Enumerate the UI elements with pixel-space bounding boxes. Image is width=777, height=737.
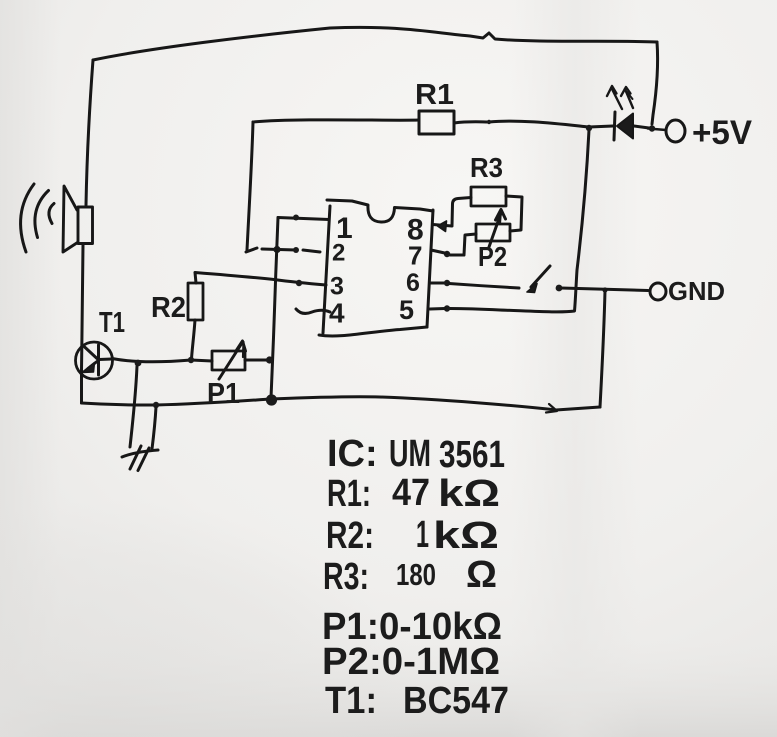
svg-text:3561: 3561 — [439, 434, 505, 476]
svg-text:+5V: +5V — [692, 114, 752, 152]
svg-text:R2:: R2: — [326, 515, 374, 557]
wire pin5 stub — [430, 307, 445, 311]
wire pin2 dashed — [246, 248, 320, 252]
wire P2 left lead — [450, 234, 476, 255]
node at +5V — [649, 125, 655, 131]
svg-text:4: 4 — [329, 298, 345, 329]
svg-text:R3:: R3: — [323, 556, 369, 598]
svg-text:P2: P2 — [478, 241, 507, 272]
svg-text:180: 180 — [396, 557, 436, 592]
ground/transducer symbol — [122, 366, 158, 471]
svg-text:2: 2 — [332, 240, 345, 267]
node pin1 — [293, 215, 299, 221]
svg-text:kΩ: kΩ — [433, 515, 499, 557]
svg-text:47: 47 — [392, 472, 430, 514]
tick on bottom bus — [546, 404, 557, 413]
wire pin7 stub — [431, 250, 447, 254]
node on GND row — [602, 287, 607, 292]
svg-text:R1: R1 — [415, 79, 454, 111]
wire R1 left lead — [253, 120, 419, 122]
node base/gnd-sym junction — [135, 360, 142, 367]
node pin3 — [296, 280, 302, 286]
potentiometer P2 — [476, 210, 510, 248]
wire to GND terminal — [561, 288, 648, 291]
potentiometer P1 — [212, 341, 246, 379]
wire P1 right lead — [245, 359, 269, 362]
wire right drop to +5V — [652, 42, 658, 124]
transistor T1 — [76, 342, 113, 379]
resistor R1 — [419, 111, 454, 134]
svg-text:kΩ: kΩ — [438, 473, 500, 515]
wire bus vertical — [271, 218, 278, 399]
wire LED drop + pin5 row — [449, 130, 589, 312]
node LED top — [586, 125, 592, 131]
svg-text:T1: T1 — [99, 307, 125, 339]
svg-text:3: 3 — [330, 273, 344, 301]
wire top arc — [93, 27, 657, 60]
wire bottom bus — [82, 397, 601, 410]
node P1 bus junction — [266, 356, 273, 363]
node switch right — [556, 285, 563, 292]
svg-text:5: 5 — [399, 295, 414, 325]
wire left vertical lower (speaker to bottom-left corner) — [82, 245, 84, 403]
wire R2 top to pin3 — [195, 273, 326, 286]
svg-text:6: 6 — [406, 269, 420, 297]
wire R1 right lead — [454, 121, 613, 127]
wire R2 bottom lead — [192, 320, 196, 359]
pin4 stub squiggle — [296, 309, 330, 313]
wire left vertical upper (top corner to speaker) — [86, 60, 93, 205]
svg-text:Ω: Ω — [466, 554, 497, 596]
node pin5 — [444, 305, 450, 311]
node pin2 bus junction — [273, 246, 280, 253]
node main bottom junction — [266, 394, 277, 405]
speaker LS1 — [63, 186, 93, 252]
svg-text:R3: R3 — [470, 152, 503, 183]
node pin2 — [293, 247, 299, 253]
svg-text:T1:: T1: — [325, 680, 377, 722]
sound waves — [21, 184, 54, 252]
svg-text:R1:: R1: — [327, 473, 371, 515]
node on R1 right lead — [487, 120, 491, 124]
wire to +5V terminal — [648, 129, 666, 131]
terminal GND — [650, 283, 666, 300]
svg-text:1: 1 — [416, 514, 429, 556]
svg-text:P2:0-1MΩ: P2:0-1MΩ — [322, 641, 500, 683]
node R2 bottom junction — [188, 357, 194, 363]
wire R3 right lead — [506, 196, 522, 231]
terminal +5V — [666, 120, 685, 142]
resistor R2 — [188, 283, 203, 320]
resistor R3 — [471, 187, 506, 206]
wire T1 base row — [112, 359, 212, 362]
svg-text:7: 7 — [408, 241, 422, 271]
svg-text:UM: UM — [389, 433, 431, 475]
wire pin8 stub with arrow — [433, 225, 452, 227]
wire bottom bus to GND row — [600, 291, 605, 407]
svg-text:P1: P1 — [207, 378, 240, 410]
node gnd-sym bottom junction — [153, 402, 159, 408]
svg-text:IC:: IC: — [327, 433, 378, 475]
wire inner drop (R1 lead down to pin2) — [247, 122, 253, 250]
node pin7 — [444, 251, 450, 257]
IC U1 UM3561 outline — [319, 200, 433, 336]
wire pin1 — [278, 218, 329, 220]
svg-text:BC547: BC547 — [403, 680, 509, 722]
LED D1 — [607, 86, 649, 140]
wire R3 left lead — [452, 198, 471, 226]
wire pin6 row with switch to GND — [431, 282, 447, 285]
parts list text — [322, 433, 509, 722]
svg-text:R2: R2 — [151, 292, 186, 324]
switch lever S1 — [531, 266, 550, 287]
svg-text:GND: GND — [668, 276, 725, 306]
